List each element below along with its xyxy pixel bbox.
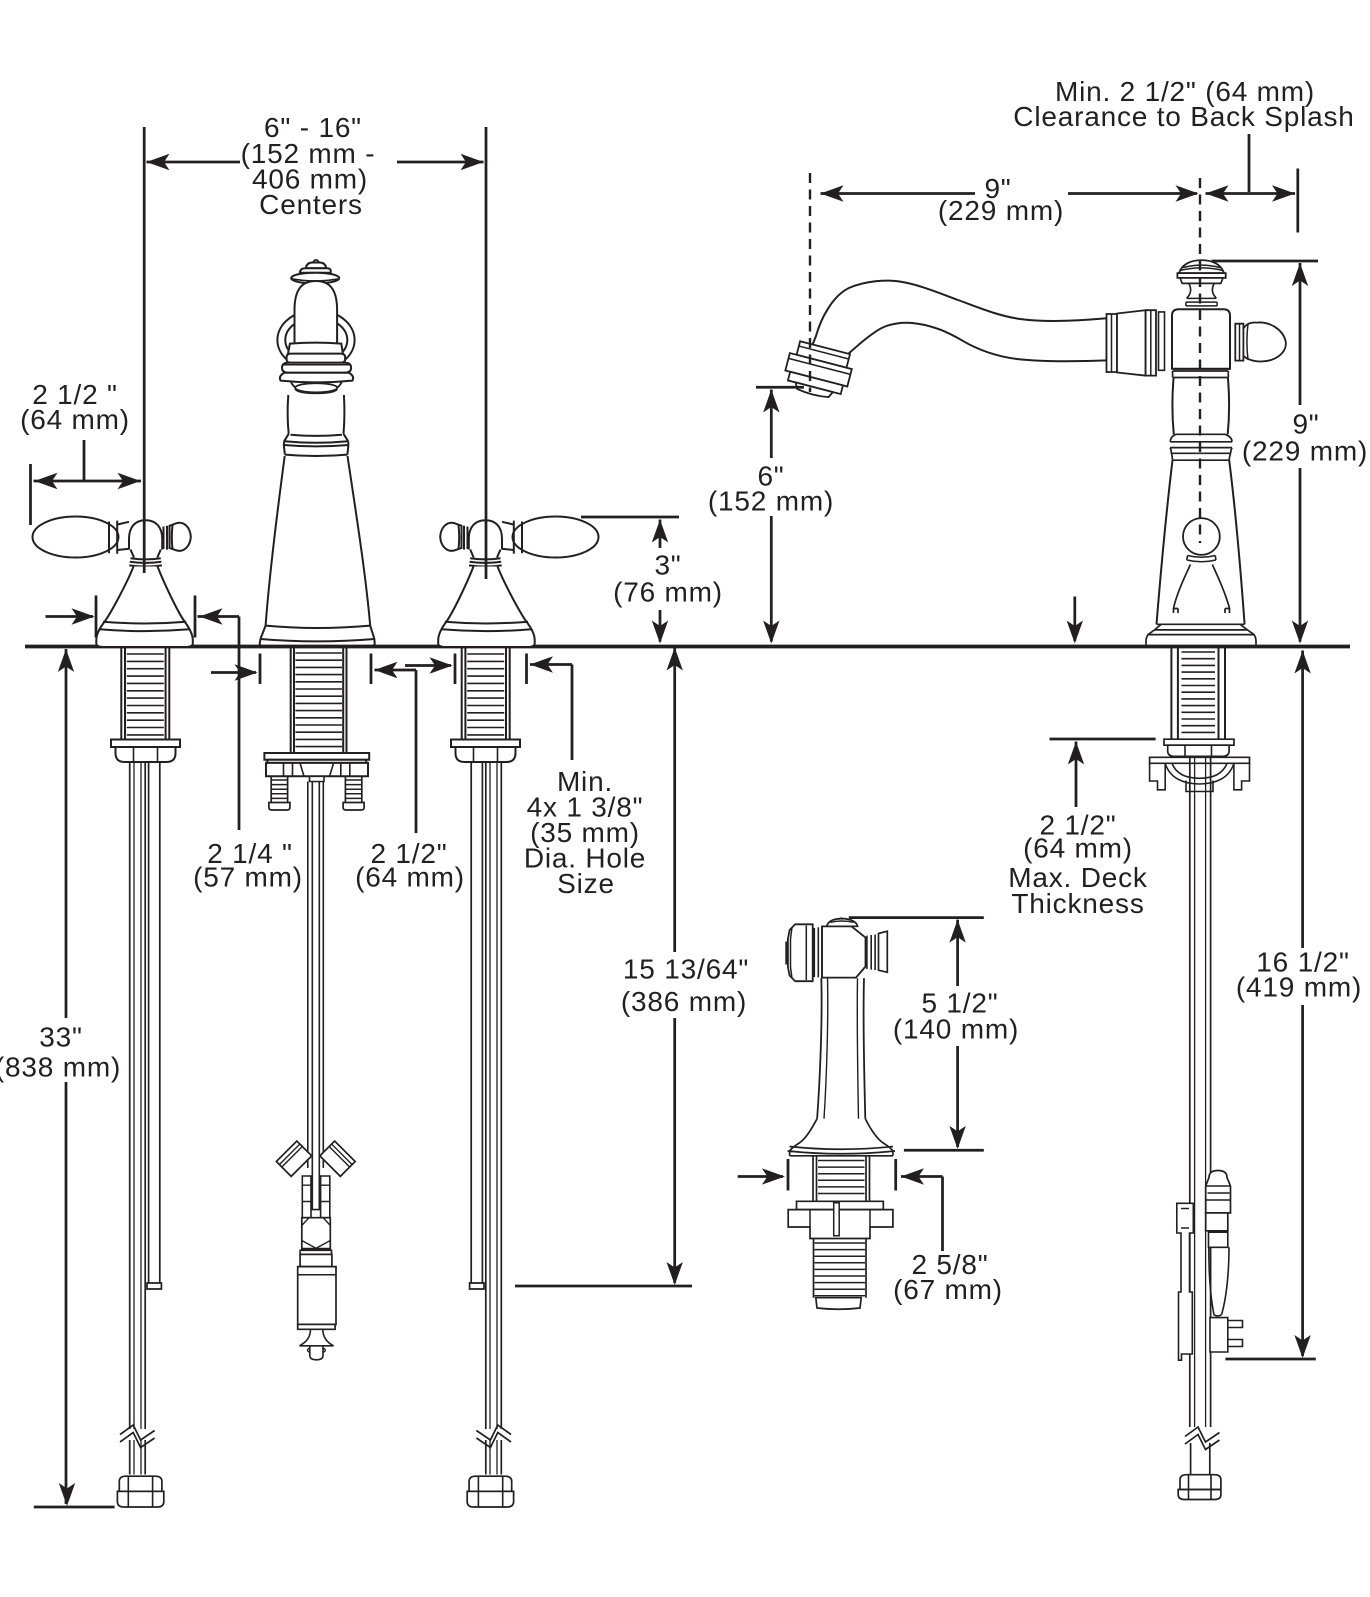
dim clearance tick <box>1296 169 1299 233</box>
svg-text:Size: Size <box>557 868 615 899</box>
side view shank, bracket, hose and clips below deck <box>1150 648 1250 1500</box>
svg-text:(838 mm): (838 mm) <box>0 1052 121 1083</box>
dashed centerline of faucet body <box>1199 178 1201 543</box>
dim 5.5in top bar <box>849 916 984 919</box>
dim 6-16in centers arrows <box>147 161 241 164</box>
dim hole size ticks <box>455 654 527 685</box>
extension line through H1 center <box>143 127 146 573</box>
dim max deck ref bar <box>1050 738 1156 741</box>
svg-text:(152 mm): (152 mm) <box>708 486 834 517</box>
dim 3in ref bar <box>581 516 679 519</box>
dim 2.5in grip arrows <box>34 480 142 483</box>
svg-text:(57 mm): (57 mm) <box>193 862 303 893</box>
dim 9in horiz arrows <box>821 185 844 201</box>
spout S1 (front view) with ring, shank, bracket, bolts and valve <box>260 260 375 1360</box>
svg-text:Centers: Centers <box>259 189 363 220</box>
svg-text:(229 mm): (229 mm) <box>1242 436 1368 467</box>
dim 6in ref bar <box>756 386 804 389</box>
dim 2.5in spout arrows <box>211 671 256 674</box>
dim hole size arrows <box>405 664 451 667</box>
dashed centerline at spout outlet <box>809 173 811 392</box>
countertop deck line <box>25 645 1350 649</box>
dim 2.25in skirt ticks <box>96 596 195 638</box>
svg-text:15 13/64": 15 13/64" <box>623 954 749 985</box>
dim 2.5in grip tick <box>29 464 32 525</box>
left handle H1 (front view) with shank, supply tube and nut <box>33 517 193 1508</box>
svg-text:(229 mm): (229 mm) <box>938 195 1064 226</box>
svg-text:33": 33" <box>39 1022 82 1053</box>
dim clearance arrows <box>1206 185 1229 201</box>
dim 2.25in skirt arrows <box>46 615 94 618</box>
side sprayer SP1 with shank, wing nut and tailpiece <box>786 918 895 1309</box>
dim 2.625in arrows <box>738 1175 783 1178</box>
dim 9in vert bar <box>1212 260 1319 263</box>
dim 2.5in spout ticks <box>260 654 371 685</box>
svg-text:Thickness: Thickness <box>1011 888 1144 919</box>
dim 9in vert arrows <box>1292 263 1308 286</box>
dim 2.625in ticks <box>788 1159 896 1191</box>
svg-text:(64 mm): (64 mm) <box>20 404 130 435</box>
dim 16.5in arrows <box>1294 651 1310 674</box>
extension line through H2 center <box>485 127 488 579</box>
svg-text:(386 mm): (386 mm) <box>621 986 747 1017</box>
dim max deck top arrow <box>1073 597 1076 642</box>
dim 5.5in arrows <box>949 920 965 943</box>
side view faucet V1 (spout, body, column, ball, base) <box>781 260 1286 645</box>
svg-text:(140 mm): (140 mm) <box>893 1014 1019 1045</box>
dim 15in arrows <box>667 648 683 671</box>
svg-text:(76 mm): (76 mm) <box>613 577 723 608</box>
svg-text:(64 mm): (64 mm) <box>355 862 465 893</box>
right handle H2 (mirror of H1) <box>438 517 598 1508</box>
svg-text:(419 mm): (419 mm) <box>1236 972 1362 1003</box>
svg-text:(64 mm): (64 mm) <box>1023 833 1133 864</box>
svg-text:(67 mm): (67 mm) <box>893 1274 1003 1305</box>
svg-text:Clearance to Back Splash: Clearance to Back Splash <box>1013 101 1354 132</box>
dim 3in arrows <box>652 520 668 543</box>
dim 6in arrows <box>763 390 779 413</box>
dim max deck arrow <box>1068 742 1084 765</box>
dim 33in arrows <box>58 649 74 672</box>
dim clearance leader <box>1248 134 1251 192</box>
